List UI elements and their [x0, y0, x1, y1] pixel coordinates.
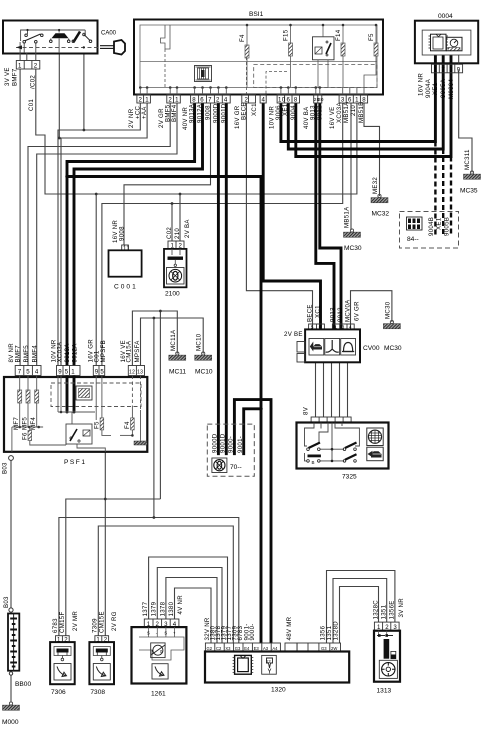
svg-text:S: S [164, 631, 167, 636]
svg-text:MPSFB: MPSFB [100, 340, 107, 363]
svg-text:CV00: CV00 [363, 345, 380, 352]
svg-text:1: 1 [145, 97, 149, 104]
svg-text:1: 1 [175, 97, 179, 104]
svg-text:F15: F15 [283, 29, 290, 41]
svg-text:MF4: MF4 [30, 417, 37, 430]
svg-text:ME32: ME32 [372, 177, 379, 194]
svg-text:E4: E4 [244, 646, 250, 651]
svg-text:BMF7: BMF7 [15, 345, 22, 363]
svg-text:9001D: 9001D [219, 433, 226, 453]
svg-text:210: 210 [350, 105, 357, 116]
svg-text:4: 4 [35, 369, 39, 376]
svg-text:9: 9 [58, 369, 62, 376]
svg-text:210: 210 [174, 228, 181, 239]
svg-text:MC35: MC35 [460, 188, 478, 195]
svg-text:C02: C02 [166, 227, 173, 239]
svg-text:2100: 2100 [165, 291, 180, 298]
svg-text:/C02: /C02 [30, 75, 37, 89]
svg-text:2V BA: 2V BA [184, 219, 191, 238]
svg-text:1328D: 1328D [333, 621, 340, 641]
svg-text:MB51A: MB51A [343, 101, 350, 123]
svg-text:9012A: 9012A [72, 343, 79, 363]
svg-text:1: 1 [71, 369, 75, 376]
svg-text:8: 8 [192, 97, 196, 104]
svg-text:1356E: 1356E [389, 600, 396, 619]
svg-text:1: 1 [434, 66, 438, 73]
svg-text:BMF4: BMF4 [171, 104, 178, 122]
svg-text:9000D: 9000D [212, 103, 219, 123]
svg-text:2: 2 [216, 97, 220, 104]
svg-text:0004: 0004 [438, 13, 453, 20]
svg-text:C2: C2 [216, 646, 222, 651]
svg-text:XC1: XC1 [251, 103, 258, 116]
svg-text:8V: 8V [303, 406, 310, 415]
svg-text:6: 6 [287, 97, 291, 104]
svg-text:MC11: MC11 [169, 369, 186, 376]
svg-text:MCV0A: MCV0A [344, 299, 351, 322]
svg-text:1313: 1313 [377, 688, 392, 695]
svg-text:2: 2 [168, 97, 172, 104]
svg-text:S: S [147, 631, 150, 636]
svg-text:MC30: MC30 [384, 345, 402, 352]
svg-text:F5: F5 [368, 33, 375, 41]
svg-text:F6: F6 [22, 432, 29, 440]
svg-text:BECE: BECE [306, 304, 313, 322]
svg-text:7: 7 [18, 369, 22, 376]
svg-text:9001-: 9001- [237, 436, 244, 453]
svg-text:6V GR: 6V GR [354, 301, 361, 321]
svg-text:1328C: 1328C [373, 600, 380, 620]
svg-text:7325: 7325 [342, 474, 357, 481]
svg-text:9000-: 9000- [249, 623, 256, 640]
svg-text:9001D: 9001D [220, 103, 227, 123]
svg-text:E3: E3 [254, 646, 260, 651]
svg-text:10: 10 [278, 97, 286, 104]
svg-text:2W: 2W [331, 646, 337, 651]
svg-text:B03: B03 [3, 596, 10, 608]
svg-text:MB51B: MB51B [358, 102, 365, 123]
svg-text:9004A: 9004A [425, 78, 432, 98]
svg-text:9000-: 9000- [228, 436, 235, 453]
svg-text:MPSFA: MPSFA [134, 340, 141, 363]
svg-text:13: 13 [137, 369, 143, 375]
svg-text:G2: G2 [207, 646, 213, 651]
svg-text:MB51A: MB51A [344, 206, 351, 228]
svg-text:9013: 9013 [309, 105, 316, 120]
svg-text:9013: 9013 [330, 307, 337, 322]
svg-text:7309: 7309 [92, 618, 99, 633]
svg-text:XE1: XE1 [282, 103, 289, 116]
svg-text:MF5: MF5 [21, 417, 28, 430]
svg-text:+AA: +AA [141, 106, 148, 119]
svg-text:1380: 1380 [168, 601, 175, 616]
svg-text:2V BE: 2V BE [284, 331, 303, 338]
svg-text:BMF4: BMF4 [32, 345, 39, 363]
svg-text:A4: A4 [272, 646, 278, 651]
svg-text:9: 9 [457, 66, 461, 73]
svg-text:CM15F: CM15F [59, 612, 66, 633]
svg-text:6: 6 [200, 97, 204, 104]
svg-text:F5: F5 [94, 421, 101, 429]
svg-text:2: 2 [34, 63, 38, 70]
svg-text:PSF1: PSF1 [64, 459, 87, 466]
svg-text:16V VE: 16V VE [329, 107, 336, 129]
svg-text:BMF7: BMF7 [12, 68, 19, 86]
svg-text:3V VE: 3V VE [4, 67, 11, 86]
svg-text:9008: 9008 [119, 226, 126, 241]
svg-text:6783: 6783 [52, 618, 59, 633]
svg-text:MC30: MC30 [384, 301, 391, 319]
svg-text:9005B: 9005B [444, 217, 451, 236]
svg-text:9012: 9012 [316, 105, 323, 120]
svg-text:1320: 1320 [271, 687, 286, 694]
svg-text:XC03A: XC03A [336, 102, 343, 123]
svg-text:5: 5 [100, 369, 104, 376]
svg-text:CM15A: CM15A [126, 340, 133, 362]
svg-text:BECE: BECE [240, 102, 247, 120]
svg-text:7306: 7306 [51, 689, 66, 696]
svg-text:3V NR: 3V NR [398, 598, 405, 618]
svg-text:9000D: 9000D [212, 433, 219, 453]
svg-text:9: 9 [95, 369, 99, 376]
svg-text:XC03A: XC03A [57, 341, 64, 362]
svg-text:1377: 1377 [142, 601, 149, 616]
svg-text:F14: F14 [335, 29, 342, 41]
svg-text:2V RG: 2V RG [111, 611, 118, 631]
svg-text:16V NR: 16V NR [417, 73, 424, 96]
svg-text:4: 4 [224, 97, 228, 104]
svg-text:BSI1: BSI1 [249, 11, 264, 18]
svg-text:CM15E: CM15E [99, 611, 106, 633]
svg-text:9013A: 9013A [188, 103, 195, 123]
svg-text:2: 2 [139, 97, 143, 104]
svg-text:X3: X3 [225, 646, 231, 651]
svg-text:XE1: XE1 [436, 217, 443, 230]
svg-text:XC1: XC1 [314, 305, 321, 318]
svg-text:1: 1 [18, 63, 22, 70]
svg-text:1378: 1378 [159, 601, 166, 616]
svg-text:7: 7 [442, 66, 446, 73]
svg-text:7308: 7308 [90, 689, 105, 696]
svg-text:MC32: MC32 [372, 211, 390, 218]
svg-text:+: + [173, 631, 176, 636]
svg-text:MC11A: MC11A [170, 329, 177, 351]
svg-text:F4: F4 [124, 421, 131, 429]
svg-text:9013A: 9013A [64, 343, 71, 363]
svg-text:G3: G3 [321, 646, 327, 651]
svg-text:BMF5: BMF5 [23, 345, 30, 363]
svg-text:MC10: MC10 [195, 369, 213, 376]
svg-text:G3: G3 [235, 646, 241, 651]
svg-text:70--: 70-- [230, 464, 242, 471]
svg-text:9008: 9008 [204, 105, 211, 120]
svg-text:9004: 9004 [290, 105, 297, 120]
svg-text:BB00: BB00 [15, 681, 31, 688]
svg-text:B03: B03 [2, 462, 9, 474]
svg-text:5: 5 [65, 369, 69, 376]
svg-text:M0004: M0004 [448, 79, 455, 99]
svg-text:9012A: 9012A [196, 103, 203, 123]
svg-text:C001: C001 [114, 284, 138, 291]
svg-text:48V MR: 48V MR [286, 616, 293, 640]
svg-text:2V MR: 2V MR [72, 611, 79, 631]
svg-text:8: 8 [294, 97, 298, 104]
svg-text:1379: 1379 [151, 601, 158, 616]
svg-text:1351: 1351 [381, 604, 388, 619]
svg-text:84--: 84-- [407, 236, 419, 243]
svg-text:C01: C01 [28, 99, 35, 111]
svg-text:MC10: MC10 [196, 333, 203, 351]
svg-text:1261: 1261 [151, 691, 166, 698]
svg-text:MC311: MC311 [464, 149, 471, 170]
svg-text:30: 30 [318, 97, 324, 102]
svg-text:4: 4 [262, 97, 266, 104]
svg-text:5: 5 [26, 369, 30, 376]
svg-text:CA00: CA00 [101, 31, 117, 37]
svg-text:F4: F4 [239, 34, 246, 42]
svg-text:12: 12 [129, 369, 135, 375]
svg-text:7: 7 [208, 97, 212, 104]
svg-text:9012: 9012 [337, 307, 344, 322]
svg-text:12: 12 [266, 659, 271, 664]
svg-text:B: B [312, 460, 315, 465]
svg-text:M000: M000 [2, 719, 19, 726]
svg-text:4V NR: 4V NR [177, 595, 184, 615]
svg-text:3: 3 [449, 66, 453, 73]
svg-text:9006: 9006 [275, 105, 282, 120]
svg-text:9005A: 9005A [440, 78, 447, 98]
svg-text:A3: A3 [263, 646, 269, 651]
svg-text:XE1: XE1 [432, 82, 439, 95]
svg-text:MC30: MC30 [344, 245, 362, 252]
svg-text:9004B: 9004B [428, 217, 435, 236]
